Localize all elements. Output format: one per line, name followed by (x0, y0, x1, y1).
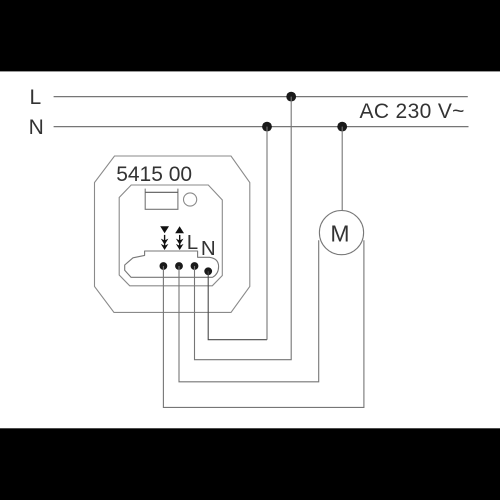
junction dot on L (286, 92, 296, 102)
svg-text:L: L (30, 86, 42, 109)
terminal dot 2 (175, 262, 183, 270)
display window rect (145, 189, 178, 210)
motor M circle (319, 211, 363, 255)
wire terminal3 to L junction (195, 97, 292, 360)
up triangle (175, 226, 184, 233)
device outer octagon frame (95, 156, 250, 312)
terminal dot 1 (160, 262, 168, 270)
wire N to motor top (341, 127, 343, 211)
right thin double-down arrow (176, 235, 184, 250)
wire L line (54, 96, 468, 98)
terminal dot 3 (191, 262, 199, 270)
terminal strip outline (125, 251, 219, 277)
wire terminal2 to motor left (179, 240, 319, 381)
wire N line (54, 126, 469, 128)
terminal dot 4 (204, 267, 212, 275)
indicator circle (184, 193, 197, 206)
junction dot on N right (337, 122, 347, 132)
top black band (0, 0, 500, 71)
left thin double-down arrow (161, 235, 169, 250)
svg-text:AC 230 V~: AC 230 V~ (360, 100, 465, 123)
svg-text:N: N (29, 116, 44, 139)
wire terminal4 to N junction lower run (208, 271, 267, 339)
bottom black band (0, 428, 500, 500)
svg-text:M: M (330, 220, 349, 246)
wire terminal4 riser to N junction (266, 127, 268, 340)
display window top line (145, 191, 178, 193)
wire terminal1 to motor right (163, 240, 364, 407)
down triangle (160, 226, 169, 233)
device inner frame (119, 185, 222, 286)
svg-text:5415 00: 5415 00 (116, 163, 192, 186)
junction dot on N left (262, 122, 272, 132)
